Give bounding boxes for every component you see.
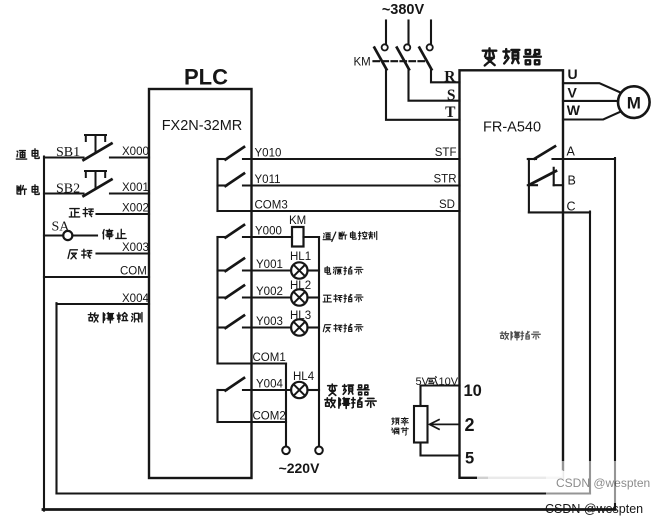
svg-text:COM: COM: [120, 266, 147, 278]
potentiometer body (frequency adjust): [414, 406, 428, 443]
contact Y002: [218, 286, 245, 299]
wire V to motor: [563, 100, 618, 102]
wire relay A drop vertical: [614, 158, 616, 510]
svg-text:HL4: HL4: [293, 371, 315, 383]
wire Y003 to HL3: [243, 326, 291, 328]
svg-text:Y000: Y000: [255, 226, 282, 238]
label SB1: [56, 145, 80, 160]
svg-text:B: B: [568, 174, 576, 188]
node label Y002: [256, 286, 283, 298]
svg-text:W: W: [567, 102, 581, 118]
node label X004: [122, 293, 149, 305]
svg-text:C: C: [567, 200, 576, 214]
svg-text:KM: KM: [289, 215, 306, 227]
contact Y003: [218, 316, 245, 329]
svg-text:5: 5: [465, 450, 474, 468]
label 5V或10V latin parts: [416, 376, 459, 388]
fault relay contact B: [528, 168, 556, 185]
label HL1: [290, 251, 311, 263]
wire left vertical supply bus: [43, 157, 45, 511]
contactor KM pole 2: [397, 44, 410, 69]
node label COM: [120, 266, 147, 278]
pin label 10: [464, 382, 482, 400]
label KM coil: [289, 215, 306, 227]
label 正转指示 (forward indicator): [323, 294, 363, 302]
svg-text:SB2: SB2: [56, 182, 80, 197]
label 正转 (forward): [69, 208, 93, 217]
label 变频器 title: [483, 48, 541, 65]
terminal label W: [567, 102, 581, 118]
label 反转指示 (reverse indicator): [323, 324, 363, 332]
wire Y001 to HL1: [243, 269, 291, 271]
svg-text:V: V: [568, 85, 578, 101]
node label Y011: [255, 174, 281, 186]
selector switch SA: [44, 231, 97, 240]
label HL3: [290, 310, 311, 322]
svg-text:CSDN @wespten: CSDN @wespten: [545, 502, 643, 516]
svg-text:HL3: HL3: [290, 310, 311, 322]
node label Y004: [256, 379, 283, 391]
svg-text:X001: X001: [122, 182, 149, 194]
terminal 220V right: [315, 447, 323, 455]
label SB2: [56, 182, 80, 197]
wire output common bus Y010-COM3: [216, 159, 218, 211]
wire bottom return to relay terminal A: [43, 508, 615, 511]
terminal label S: [447, 87, 456, 104]
lamp HL1: [291, 262, 307, 278]
pushbutton SB1: [44, 135, 149, 160]
svg-text:~220V: ~220V: [279, 460, 321, 476]
contact Y011: [218, 174, 245, 187]
wire C out: [529, 211, 590, 213]
wire KM coil to 220V bus: [304, 236, 320, 238]
svg-text:COM1: COM1: [253, 352, 286, 364]
node label Y000: [255, 226, 282, 238]
svg-text:Y001: Y001: [256, 259, 283, 271]
node label C: [567, 200, 576, 214]
label ~380V supply: [382, 2, 425, 18]
label 反转 (reverse): [68, 249, 92, 259]
wire phase to T: [386, 69, 460, 120]
label KM contactor: [354, 57, 371, 69]
svg-text:5V: 5V: [416, 376, 430, 388]
node label COM1: [253, 352, 286, 364]
svg-text:STR: STR: [434, 174, 457, 186]
node label X002: [122, 203, 149, 215]
wire X003 input (reverse): [97, 252, 150, 254]
svg-text:A: A: [567, 145, 576, 159]
node label Y003: [256, 316, 283, 328]
wire Y000 to KM coil: [243, 236, 292, 238]
wire HL2 to 220V bus: [308, 296, 320, 298]
node label COM3: [255, 200, 288, 212]
svg-text:S: S: [447, 87, 456, 104]
wire terminal 2 wiper with arrow: [430, 420, 460, 430]
wire output common bus Y000-COM1: [216, 237, 218, 364]
label 通/断电控制 (on/off control): [323, 231, 377, 241]
wire output common bus Y004-COM2: [216, 390, 218, 422]
svg-text:Y011: Y011: [255, 174, 281, 186]
pin label 5: [465, 450, 474, 468]
contact Y001: [218, 259, 245, 272]
svg-text:X002: X002: [122, 203, 149, 215]
label 停止 (stop): [103, 229, 126, 239]
node label COM2: [253, 411, 286, 423]
label ~220V supply: [279, 460, 321, 476]
label 电源指示 (power indicator): [325, 266, 363, 274]
label 故障指示 (fault indicator, gray): [500, 331, 540, 340]
svg-text:10: 10: [464, 382, 482, 400]
label SA: [52, 220, 71, 235]
label 变频器 (inverter, bold): [328, 384, 369, 396]
watermark ghost: [556, 476, 650, 490]
wire X004 drop vertical: [55, 303, 57, 493]
inverter box FR-A540: [460, 70, 564, 478]
svg-text:Y010: Y010: [255, 148, 282, 160]
fault relay contact A: [528, 146, 555, 159]
wire lamp bus drop to 220V terminal: [318, 237, 320, 447]
wire HL4 to 220V bus: [308, 389, 320, 391]
contact Y010: [218, 147, 245, 160]
wire fault-detect loop bottom (C to X004): [57, 492, 591, 494]
node label SD: [439, 199, 455, 211]
wire A out: [553, 158, 616, 160]
terminal label V: [568, 85, 578, 101]
svg-text:10V: 10V: [439, 376, 459, 388]
fault relay common vertical: [528, 159, 530, 212]
terminal label U: [568, 66, 578, 82]
node label X000: [122, 146, 149, 158]
wire COM2: [218, 421, 287, 423]
wire relay C drop vertical: [589, 212, 591, 494]
wire Y002 to HL2: [243, 296, 291, 298]
node label A: [567, 145, 576, 159]
svg-text:Y002: Y002: [256, 286, 283, 298]
three-phase supply line L3: [430, 21, 432, 45]
svg-text:FR-A540: FR-A540: [483, 120, 541, 136]
label 通电 (power on): [16, 149, 39, 159]
node label Y001: [256, 259, 283, 271]
three-phase supply line L1: [385, 21, 387, 45]
svg-text:U: U: [568, 66, 578, 82]
label 故障检测 (fault detect): [88, 313, 142, 323]
wire phase to R: [431, 69, 460, 82]
wire phase to S: [409, 69, 460, 101]
terminal 220V left: [282, 447, 290, 455]
svg-text:HL2: HL2: [290, 280, 311, 292]
wire W to motor: [563, 112, 621, 120]
wire Y011 to STR: [243, 184, 460, 186]
motor M: [618, 86, 650, 118]
svg-text:Y004: Y004: [256, 379, 283, 391]
pin label 2: [465, 415, 475, 435]
svg-text:COM2: COM2: [253, 411, 286, 423]
wire COM1: [218, 362, 287, 364]
wire COM3 to SD: [218, 210, 460, 212]
terminal label R: [444, 69, 456, 86]
svg-text:SD: SD: [439, 199, 455, 211]
wire HL3 to 220V bus: [308, 326, 320, 328]
wire COM input common: [44, 276, 149, 278]
wire potentiometer to terminal 5: [421, 443, 460, 456]
svg-text:X003: X003: [122, 242, 149, 254]
label HL2: [290, 280, 311, 292]
contact Y004: [218, 378, 245, 391]
node label STR: [434, 174, 457, 186]
svg-text:X004: X004: [122, 293, 149, 305]
PLC box FX2N-32MR: [149, 89, 252, 478]
svg-text:KM: KM: [354, 57, 371, 69]
wire Y010 to STF: [243, 158, 460, 160]
svg-text:T: T: [445, 104, 456, 121]
svg-text:COM3: COM3: [255, 200, 288, 212]
wire terminal 10 to potentiometer: [421, 386, 460, 407]
svg-text:Y003: Y003: [256, 316, 283, 328]
contactor KM pole 3: [419, 44, 432, 69]
node label X003: [122, 242, 149, 254]
wire B stub: [554, 184, 563, 186]
label PLC: [184, 65, 228, 90]
wire X004 input (fault detect): [57, 303, 150, 305]
svg-text:2: 2: [465, 415, 475, 435]
lamp HL4: [291, 382, 307, 398]
node label B: [568, 174, 576, 188]
node label X001: [122, 182, 149, 194]
svg-text:~380V: ~380V: [382, 2, 425, 18]
label FX2N-32MR: [162, 118, 243, 134]
svg-text:FX2N-32MR: FX2N-32MR: [162, 118, 243, 134]
svg-text:PLC: PLC: [184, 65, 228, 90]
node label Y010: [255, 148, 282, 160]
wire X002 input (forward): [97, 213, 150, 215]
contact Y000: [218, 225, 245, 238]
svg-text:HL1: HL1: [290, 251, 311, 263]
svg-text:R: R: [444, 69, 456, 86]
svg-text:M: M: [627, 93, 641, 112]
svg-text:CSDN @wespten: CSDN @wespten: [556, 476, 650, 490]
label 断电 (power off): [17, 185, 39, 195]
wire COM1/COM2 drop to 220V terminal: [285, 364, 287, 447]
watermark CSDN: [545, 502, 643, 516]
label 5V或10V: [429, 376, 438, 384]
label motor M: [627, 93, 641, 112]
contactor coil KM: [292, 227, 304, 247]
scan fade on inverter box bottom: [477, 470, 565, 484]
label HL4: [293, 371, 315, 383]
wire HL1 to 220V bus: [308, 269, 320, 271]
lamp HL3: [291, 319, 307, 335]
lamp HL2: [291, 289, 307, 305]
svg-text:STF: STF: [435, 147, 457, 159]
label 频率调节 (frequency adjust): [391, 417, 408, 435]
watermark fade patches: [546, 461, 642, 503]
contactor KM pole 1: [374, 44, 387, 69]
wire Y004 to HL4: [243, 389, 291, 391]
wire U to motor: [563, 83, 621, 93]
node label STF: [435, 147, 457, 159]
label FR-A540: [483, 120, 541, 136]
label 故障指示 (fault indicator, bold): [325, 398, 376, 409]
svg-text:SB1: SB1: [56, 145, 80, 160]
three-phase supply line L2: [407, 21, 409, 45]
svg-text:SA: SA: [52, 220, 71, 235]
pushbutton SB2: [44, 171, 149, 196]
svg-text:X000: X000: [122, 146, 149, 158]
contactor KM linkage dashed: [374, 60, 427, 62]
terminal label T: [445, 104, 456, 121]
